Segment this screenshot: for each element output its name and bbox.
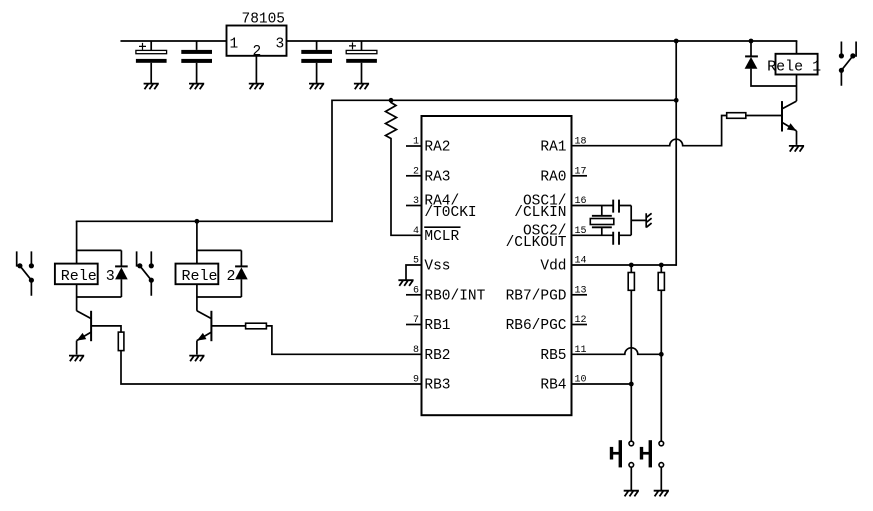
switch contacts of Rele1 <box>839 42 856 86</box>
wire pin18 RA1 to base resistor with hop <box>572 116 727 146</box>
wire rail to Rele1 coil <box>796 41 798 54</box>
wire left button column <box>630 290 632 441</box>
svg-text:RB2: RB2 <box>424 348 450 364</box>
regulator U2 78105 <box>227 12 287 61</box>
ground at Q3 emitter <box>69 356 84 362</box>
pin 2 stub <box>406 175 422 177</box>
wire Rele1 coil bottom to Q1 collector <box>796 75 798 102</box>
pin 6 stub <box>406 294 422 296</box>
pin number labels right <box>575 137 587 386</box>
ground below S2 <box>654 491 669 497</box>
ground below C1 <box>144 84 159 90</box>
relay Rele2 box <box>176 264 236 285</box>
svg-text:RA3: RA3 <box>424 169 450 185</box>
pin name labels right <box>506 140 567 394</box>
resistor R3 <box>118 332 124 351</box>
crystal Q stubs <box>601 206 603 236</box>
svg-text:RB0/INT: RB0/INT <box>424 288 485 304</box>
wire Q2 base to R2 <box>211 325 245 327</box>
node dot RB5/right column <box>659 352 664 357</box>
wire supply to Rele2 <box>197 221 242 263</box>
svg-text:78105: 78105 <box>242 12 286 28</box>
wire supply to Rele3 <box>77 221 122 263</box>
svg-text:4: 4 <box>413 226 419 237</box>
ground at Q1 emitter <box>789 146 804 152</box>
svg-text:2: 2 <box>413 166 419 177</box>
svg-text:Rele 3: Rele 3 <box>61 268 115 285</box>
capacitor C5 <box>613 200 619 213</box>
wire R2 to pin8 RB2 <box>266 326 421 354</box>
svg-text:MCLR: MCLR <box>424 229 459 245</box>
wire +5V branch y=100 <box>332 100 676 221</box>
ground at Q2 emitter <box>189 356 204 362</box>
pin 3 stub <box>406 205 422 207</box>
svg-text:7: 7 <box>413 315 419 326</box>
node dot Vdd/right pullup <box>659 263 664 268</box>
diode D3 <box>77 250 128 297</box>
IC U1 box <box>422 116 572 415</box>
node dot Vdd/left pullup <box>629 263 634 268</box>
svg-text:12: 12 <box>575 315 587 326</box>
svg-text:/CLKIN: /CLKIN <box>514 205 566 221</box>
wire Q3 base to R3 <box>91 326 121 332</box>
wire pin16 OSC1 <box>572 205 632 207</box>
pushbutton S1 left <box>610 440 634 491</box>
transistor Q3 <box>77 311 92 355</box>
capacitor C4 electrolytic <box>346 41 377 84</box>
svg-text:RA2: RA2 <box>424 140 450 156</box>
svg-text:/CLKOUT: /CLKOUT <box>506 235 567 251</box>
wire +5V vertical drop <box>675 41 677 265</box>
svg-text:1: 1 <box>230 37 239 53</box>
wire Rele2 coil bottom to Q2 collector <box>196 284 198 311</box>
svg-text:RA0: RA0 <box>540 169 566 185</box>
wire crystal bus <box>631 206 646 236</box>
capacitor C3 <box>301 41 332 84</box>
wire right button column <box>660 290 662 441</box>
transistor Q1 <box>782 101 797 145</box>
crystal Q body <box>590 216 614 228</box>
capacitor C2 <box>181 41 212 84</box>
svg-text:RB6/PGC: RB6/PGC <box>506 318 567 334</box>
svg-text:Vss: Vss <box>424 259 450 275</box>
ground at crystal (rotated) <box>646 213 651 227</box>
pin 12 stub <box>572 324 588 326</box>
pushbutton S2 right <box>640 440 664 491</box>
wire Rele3 coil bottom to Q3 collector <box>76 284 78 311</box>
svg-text:13: 13 <box>575 285 587 296</box>
diode D1 <box>745 41 797 86</box>
svg-text:3: 3 <box>276 37 285 53</box>
svg-text:RB1: RB1 <box>424 318 450 334</box>
ground at Vss <box>398 280 413 286</box>
wire pin11 RB5 with hop <box>572 348 662 354</box>
wire regulator pin2 to ground <box>255 56 257 84</box>
relay Rele1 box <box>767 54 821 76</box>
svg-text:17: 17 <box>575 166 587 177</box>
ground below C2 <box>189 84 204 90</box>
relay Rele3 box <box>55 264 115 285</box>
svg-text:RB3: RB3 <box>424 378 450 394</box>
pin 17 stub <box>572 175 588 177</box>
ground below C3 <box>309 84 324 90</box>
pin 7 stub <box>406 324 422 326</box>
svg-text:Vdd: Vdd <box>540 259 566 275</box>
node dot y221/Rele2 <box>195 219 200 224</box>
svg-text:Rele 2: Rele 2 <box>182 268 236 285</box>
pin name labels left <box>424 140 485 394</box>
capacitor C6 <box>613 232 619 245</box>
pin 1 stub <box>406 145 422 147</box>
switch contacts of Rele2 <box>137 251 154 295</box>
svg-text:RB7/PGD: RB7/PGD <box>506 288 567 304</box>
svg-text:RB5: RB5 <box>540 348 566 364</box>
pin number labels left <box>413 137 419 386</box>
resistor R4 pullup left <box>628 265 634 290</box>
wire pin10 RB4 <box>572 383 632 385</box>
wire top rail right of regulator <box>287 40 797 42</box>
svg-text:6: 6 <box>413 285 419 296</box>
pin 13 stub <box>572 294 588 296</box>
pin 5 Vss stub <box>406 265 422 280</box>
ground below regulator <box>249 84 264 90</box>
ground below C4 <box>354 84 369 90</box>
svg-text:1: 1 <box>413 137 419 148</box>
wire pin15 OSC2 <box>572 234 632 236</box>
capacitor C1 electrolytic <box>136 41 167 84</box>
resistor R1 base Rele1 <box>727 113 746 119</box>
node dot y100/R-MCLR <box>389 98 394 103</box>
diode D2 <box>197 250 248 297</box>
svg-text:5: 5 <box>413 256 419 267</box>
svg-text:RA1: RA1 <box>540 140 566 156</box>
wire R1 to Q1 base <box>746 115 782 117</box>
svg-text:Rele 1: Rele 1 <box>767 58 821 75</box>
node dot rail/diode D1 <box>749 39 754 44</box>
svg-text:RB4: RB4 <box>540 378 566 394</box>
wire top rail left of regulator <box>121 40 226 42</box>
svg-text:3: 3 <box>413 196 419 207</box>
node dot RB4/left column <box>629 382 634 387</box>
wire Vdd pin14 <box>572 264 677 266</box>
wire relay supply y=221 <box>77 220 332 222</box>
resistor R5 pullup right <box>658 265 664 290</box>
wire R3 to pin9 RB3 <box>121 351 422 384</box>
transistor Q2 <box>197 311 212 355</box>
resistor R-MCLR zigzag <box>386 100 422 235</box>
node dot rail/+5V vertical <box>674 39 679 44</box>
svg-text:/T0CKI: /T0CKI <box>424 205 476 221</box>
resistor R2 <box>246 323 267 329</box>
ground below S1 <box>624 491 639 497</box>
node dot y100/vertical <box>674 98 679 103</box>
switch contacts of Rele3 <box>17 251 34 295</box>
